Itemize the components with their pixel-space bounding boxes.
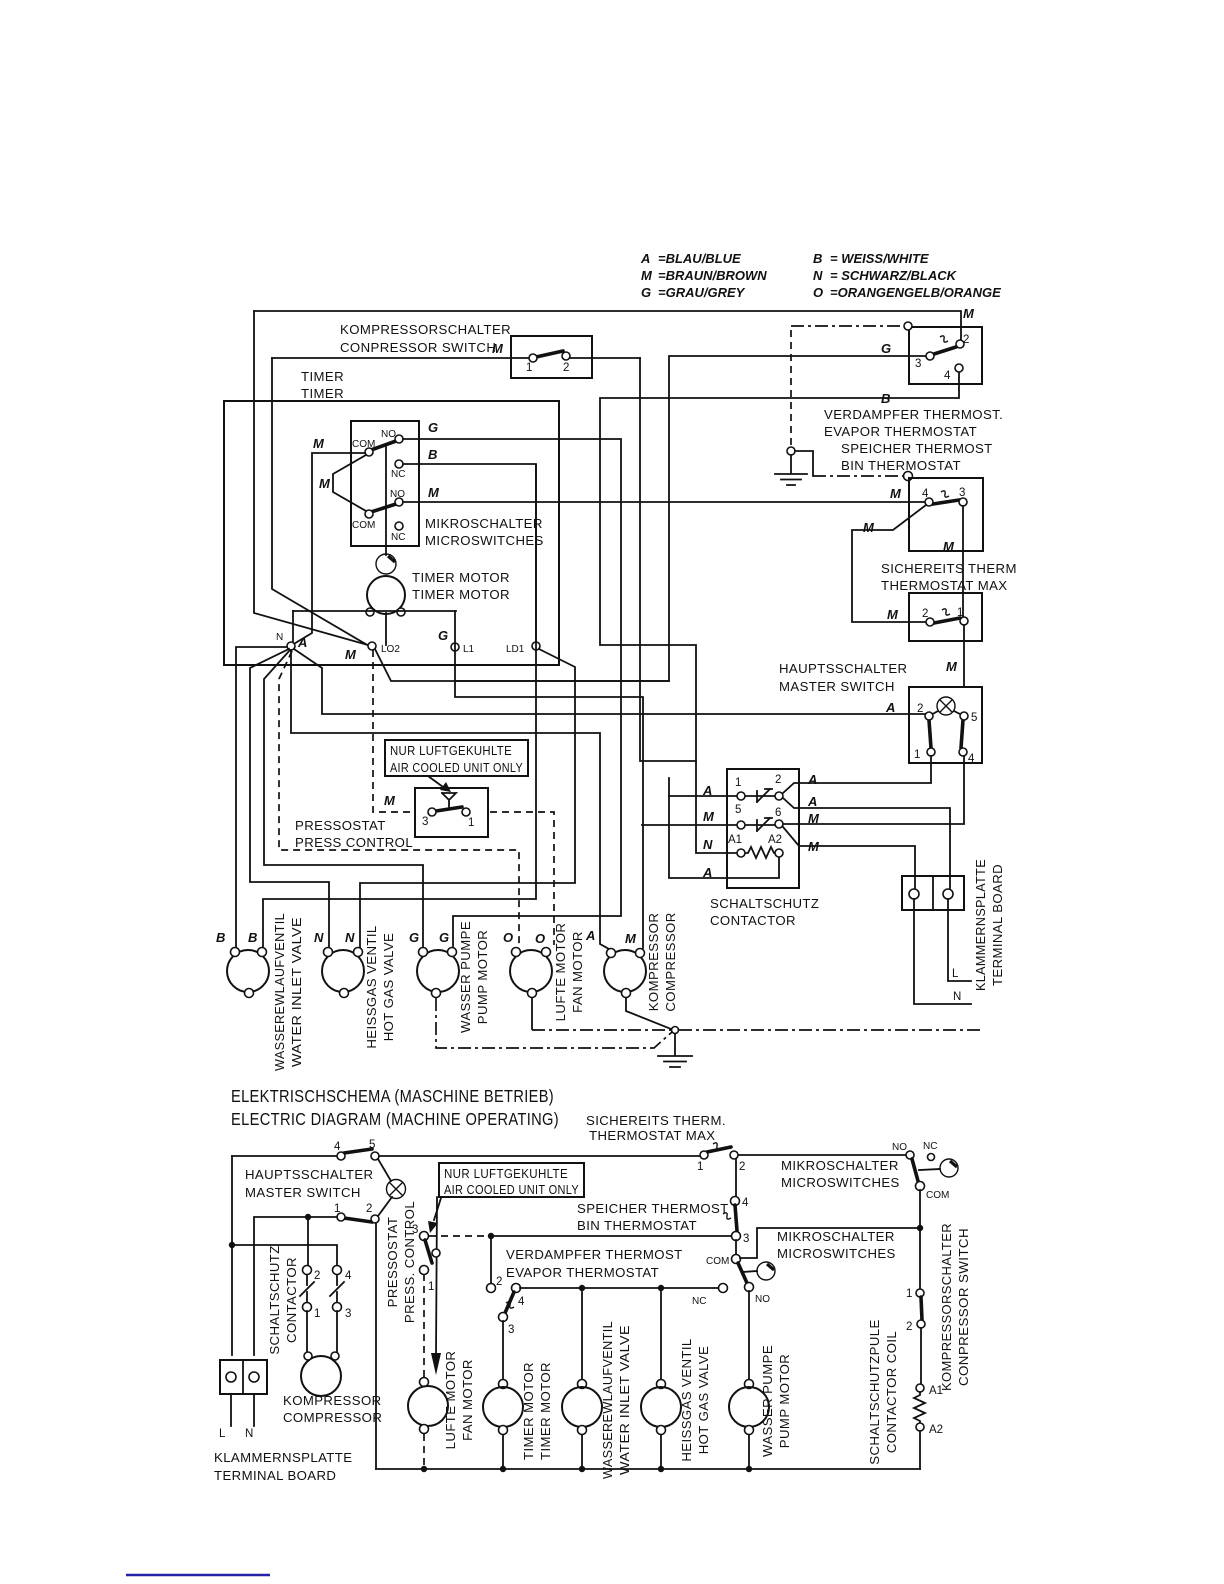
svg-text:COM: COM [352,520,375,531]
bin thermostat box [909,478,983,551]
svg-text:NC: NC [923,1141,937,1152]
svg-text:COMPRESSOR: COMPRESSOR [663,912,678,1011]
wire code letters above motors [216,928,637,946]
wire lamp to 2 [378,1197,392,1216]
svg-text:= SCHWARZ/BLACK: = SCHWARZ/BLACK [830,268,958,283]
hot gas valve motor [322,948,364,998]
timer motor (bottom) [502,1321,504,1469]
wire B from MS1 NC down through LD1 [263,464,536,948]
pressostat blade [436,807,462,811]
svg-text:4: 4 [518,1296,525,1308]
terminal contact 2 [775,792,783,800]
svg-text:SCHALTSCHUTZ: SCHALTSCHUTZ [267,1245,282,1354]
wire node fan to N valve left [250,649,329,948]
terminal LO2 [368,642,376,650]
arrow from note box to pressostat [428,776,443,787]
svg-text:TIMER MOTOR: TIMER MOTOR [412,570,510,585]
contact 5-6 NC symbol [746,818,775,831]
wire left frame vertical to LO2 [254,311,368,645]
board stubs L N [231,1394,254,1426]
page footer link line [126,1574,270,1576]
wire node fan to G pump left [264,650,423,948]
wire N lead [914,899,971,1004]
svg-text:THERMOSTAT MAX: THERMOSTAT MAX [881,578,1008,593]
pressostat B1 box [415,788,488,837]
svg-text:G: G [641,285,651,300]
wire contact 5 feed [642,824,737,826]
svg-text:3: 3 [915,358,921,370]
svg-text:KOMPRESSORSCHALTER: KOMPRESSORSCHALTER [939,1223,954,1391]
pump motor (bottom) [748,1291,750,1469]
evap blade 3-2 [934,347,956,354]
bin thermostat switch (bottom) [731,1197,740,1206]
wire evap B loop [600,372,959,853]
svg-text:EVAPOR THERMOSTAT: EVAPOR THERMOSTAT [824,424,977,439]
evap squiggle [940,336,948,342]
svg-text:KLAMMERNSPLATTE: KLAMMERNSPLATTE [973,859,988,991]
svg-text:WASSEREWLAUFVENTIL: WASSEREWLAUFVENTIL [272,913,287,1071]
svg-text:TERMINAL BOARD: TERMINAL BOARD [214,1468,336,1483]
svg-text:B: B [216,930,225,945]
terminal bin 4 [925,498,933,506]
contact 2-1 (bottom contactor) [303,1266,312,1275]
pressostat switch (bottom) [420,1232,429,1241]
svg-text:6: 6 [775,807,781,819]
terminal master 1 [927,748,935,756]
svg-text:MIKROSCHALTER: MIKROSCHALTER [781,1158,899,1173]
svg-text:2: 2 [563,362,569,374]
svg-text:A: A [807,772,817,787]
svg-text:1: 1 [428,1281,434,1293]
dash-dot earth bus [532,1029,981,1031]
svg-text:G: G [881,341,891,356]
svg-text:VERDAMPFER THERMOST.: VERDAMPFER THERMOST. [824,407,1003,422]
svg-text:M: M [887,607,899,622]
svg-text:1: 1 [334,1203,340,1215]
contactor box (top) [727,769,799,888]
svg-text:TERMINAL BOARD: TERMINAL BOARD [990,864,1005,986]
svg-text:A: A [807,794,817,809]
svg-text:4: 4 [968,753,975,765]
max blade 2-1 [934,618,960,623]
svg-text:PRESS CONTROL: PRESS CONTROL [295,835,413,850]
svg-text:M: M [963,306,975,321]
svg-text:TIMER: TIMER [301,369,344,384]
svg-text:N: N [245,1428,253,1440]
svg-text:THERMOSTAT MAX: THERMOSTAT MAX [589,1128,716,1143]
svg-text:1: 1 [735,777,741,789]
svg-text:O: O [503,930,513,945]
terminal evap 2 [956,340,964,348]
svg-text:4: 4 [742,1197,749,1209]
svg-text:2: 2 [775,774,781,786]
svg-text:2: 2 [917,703,923,715]
svg-text:M: M [313,436,325,451]
svg-text:M: M [703,809,715,824]
terminal master 4 [959,748,967,756]
svg-text:LUFTE MOTOR: LUFTE MOTOR [443,1351,458,1450]
terminal bin 3 [959,498,967,506]
svg-text:2: 2 [314,1270,320,1282]
wire LO2 diagonal branch [375,649,669,681]
svg-text:5: 5 [735,804,741,816]
svg-text:A1: A1 [929,1385,943,1397]
svg-text:LO2: LO2 [381,644,400,655]
svg-text:4: 4 [345,1270,352,1282]
wire bin 3 to thermostat-max 1 [962,506,964,617]
svg-text:SICHEREITS THERM: SICHEREITS THERM [881,561,1017,576]
earth junction [672,1027,679,1034]
svg-text:HOT GAS VALVE: HOT GAS VALVE [696,1346,711,1455]
svg-text:KOMPRESSOR: KOMPRESSOR [646,913,661,1012]
wire fan drain [531,998,533,1029]
svg-text:MIKROSCHALTER: MIKROSCHALTER [777,1229,895,1244]
evap thermostat switch (bottom) [487,1284,496,1293]
svg-text:1: 1 [697,1161,703,1173]
svg-text:TIMER MOTOR: TIMER MOTOR [412,587,510,602]
svg-text:WASSER PUMPE: WASSER PUMPE [760,1345,775,1457]
coil A2 terminal [916,1423,924,1431]
svg-text:N: N [813,268,823,283]
svg-text:M: M [890,486,902,501]
svg-text:M: M [946,659,958,674]
junction on 1-row [305,1214,311,1220]
svg-text:COMPRESSOR: COMPRESSOR [283,1410,382,1425]
terminal L1 [451,643,459,651]
water inlet valve motor [227,948,269,998]
wire M top bus to evaporator thermostat [254,311,961,340]
microswitch MS2 labels [319,476,440,543]
svg-text:SPEICHER THERMOST: SPEICHER THERMOST [577,1201,729,1216]
svg-text:L1: L1 [463,644,475,655]
terminal MS2 COM [365,510,373,518]
svg-text:4: 4 [944,370,951,382]
svg-text:CONTACTOR COIL: CONTACTOR COIL [884,1331,899,1453]
svg-text:MASTER SWITCH: MASTER SWITCH [245,1185,361,1200]
svg-text:NO: NO [755,1294,770,1305]
svg-text:LUFTE MOTOR: LUFTE MOTOR [553,923,568,1022]
water inlet valve (bottom) [581,1292,583,1469]
svg-text:B: B [881,391,890,406]
svg-text:WATER INLET VALVE: WATER INLET VALVE [617,1325,632,1475]
node N/A [287,642,295,650]
wire A2 to terminal board L [783,827,915,888]
svg-text:G: G [409,930,419,945]
terminal MS2 NO [395,498,403,506]
svg-text:NO: NO [381,429,396,440]
svg-text:G: G [428,420,438,435]
bulb circle on evap box [904,322,912,330]
svg-text:ELECTRIC DIAGRAM (MACHINE OPER: ELECTRIC DIAGRAM (MACHINE OPERATING) [231,1109,559,1129]
wire node fan dashed to fan motor left [279,651,519,948]
fan motor [510,948,552,998]
lamp leads [931,711,962,715]
svg-text:=GRAU/GREY: =GRAU/GREY [658,285,746,300]
svg-text:WASSEREWLAUFVENTIL: WASSEREWLAUFVENTIL [600,1321,615,1479]
svg-text:B: B [428,447,437,462]
svg-text:BIN THERMOSTAT: BIN THERMOSTAT [841,458,961,473]
max squiggle [942,609,950,615]
svg-text:VERDAMPFER THERMOST: VERDAMPFER THERMOST [506,1247,683,1262]
wire top line to bin 4 [735,1159,737,1197]
svg-text:M: M [492,341,504,356]
terminal master 2 (bottom) [371,1215,379,1223]
svg-text:1: 1 [914,749,920,761]
dash-dot to bin thermostat bulb [813,475,903,477]
wire master 2 left bus riser [375,1223,377,1469]
dashed capillary down [790,330,792,447]
svg-text:TIMER MOTOR: TIMER MOTOR [521,1362,536,1460]
svg-text:B: B [813,251,822,266]
wire M feed to MS1 COM [292,453,365,645]
svg-text:O: O [535,931,545,946]
master switch 4-5 blade [344,1149,372,1153]
svg-text:G: G [438,628,448,643]
svg-text:NC: NC [692,1296,706,1307]
capillary node circle [787,447,795,455]
terminal max 2 [926,618,934,626]
svg-text:PUMP MOTOR: PUMP MOTOR [475,930,490,1024]
svg-text:N: N [345,930,355,945]
svg-text:G: G [439,930,449,945]
terminal A1 [737,849,745,857]
svg-text:4: 4 [334,1141,341,1153]
svg-text:AIR COOLED UNIT ONLY: AIR COOLED UNIT ONLY [444,1182,579,1197]
master switch box (top) [909,687,982,763]
svg-text:NC: NC [391,469,405,480]
wire LO2 dashed to pressostat 3 [373,650,413,812]
box NUR LUFTGEKUHLTE (top) [385,740,528,776]
svg-text:CONTACTOR: CONTACTOR [710,913,796,928]
svg-text:B: B [248,930,257,945]
terminal evap 4 [955,364,963,372]
terminal board box (top) [902,876,964,910]
terminal max 1 [960,617,968,625]
svg-text:A: A [702,865,712,880]
board terminal right [943,889,953,899]
wire contacts to compressor terminals [307,1311,337,1352]
svg-text:M: M [641,268,653,283]
svg-text:PRESSOSTAT: PRESSOSTAT [295,818,386,833]
top supply line [232,1155,907,1156]
svg-text:HAUPTSSCHALTER: HAUPTSSCHALTER [779,661,907,676]
blade MS2 [371,504,396,512]
timer motor foot left [366,608,374,616]
thermostat max box [909,593,982,641]
dash-dot bulb line to evap box [791,325,904,327]
wire compressor drain [626,998,671,1029]
svg-text:3: 3 [508,1324,514,1336]
pump motor [417,948,459,998]
svg-text:FAN MOTOR: FAN MOTOR [570,931,585,1013]
wire capillary to bin bulb [795,451,813,476]
terminal master 5 (bottom) [371,1152,379,1160]
blade MS1 [371,441,396,450]
svg-text:MICROSWITCHES: MICROSWITCHES [781,1175,900,1190]
svg-text:M: M [319,476,331,491]
bulb circle on bin box [904,472,913,481]
timer outer box [224,401,559,665]
wire pump drain dash-dot [436,998,672,1048]
contact 1-2 NC symbol [746,789,775,802]
cam MS2 (bottom) [742,1271,757,1272]
svg-text:2: 2 [496,1276,502,1288]
board terminal left [909,889,919,899]
svg-text:MASTER SWITCH: MASTER SWITCH [779,679,895,694]
compressor motor (bottom) [301,1356,341,1396]
svg-text:1: 1 [906,1288,912,1300]
terminal master 5 [960,712,968,720]
wire junction down to evap 2 [490,1236,492,1284]
svg-text:FAN MOTOR: FAN MOTOR [460,1359,475,1441]
svg-text:NUR LUFTGEKUHLTE: NUR LUFTGEKUHLTE [390,743,512,758]
coil zigzag [914,1392,925,1423]
wire L1 branch to G evap riser [455,356,926,681]
svg-text:AIR COOLED UNIT ONLY: AIR COOLED UNIT ONLY [390,760,523,775]
node: compressor switch K1 [340,322,592,378]
wire G from MS1 NO across to pump riser [403,439,621,948]
terminal contact 1 [737,792,745,800]
terminal MS1 NO [395,435,403,443]
svg-text:PUMP MOTOR: PUMP MOTOR [777,1354,792,1448]
svg-text:1: 1 [314,1308,320,1320]
svg-text:HOT GAS VALVE: HOT GAS VALVE [381,933,396,1042]
svg-text:L: L [219,1428,226,1440]
timer cam shaft [385,447,387,555]
svg-text:A: A [640,251,650,266]
svg-text:PRESS. CONTROL: PRESS. CONTROL [402,1201,417,1323]
wire A2 to bottom bus [919,1431,921,1469]
svg-text:M: M [345,647,357,662]
wire node A straight-down branch to compressor [291,650,609,949]
wire timer terminal rail [293,610,456,612]
wire master 1 row to terminal board N [254,1217,337,1355]
wire junction to contactor 4 [232,1245,337,1265]
bin blade 4-3 [933,500,959,504]
long arrow to fan motor [436,1197,437,1355]
svg-text:WASSER PUMPE: WASSER PUMPE [458,921,473,1033]
pressostat actuator [442,793,456,808]
svg-text:5: 5 [369,1139,375,1151]
wire 1-row junction down to contact 2 [307,1217,309,1265]
svg-text:NO: NO [892,1142,907,1153]
svg-text:MIKROSCHALTER: MIKROSCHALTER [425,516,543,531]
wire junction to bin thermostat 3 [491,1235,732,1237]
wire node fan to B valve left [236,647,287,948]
microswitch 2 (bottom) [732,1255,741,1264]
wire compressor-switch M riser [640,358,696,761]
hot gas valve (bottom) [660,1292,662,1469]
svg-text:3: 3 [959,487,965,499]
wire contact 1 feed [669,795,737,797]
master blades [929,720,931,748]
MS2 NC terminal [719,1284,728,1293]
svg-text:A: A [585,928,595,943]
wire LD1 riser upper [535,465,537,642]
wire bin 3 down to MS2 COM [735,1240,737,1254]
wire switch 2 down to coil A1 [920,1328,922,1384]
ground symbol (capillary) [775,455,807,485]
svg-text:M: M [943,539,955,554]
terminal pressostat 3 [428,808,436,816]
compressor switch (bottom) [916,1289,924,1297]
svg-text:SCHALTSCHUTZ: SCHALTSCHUTZ [710,896,819,911]
wire contact 2 to terminal board R [783,798,950,888]
svg-text:=BRAUN/BROWN: =BRAUN/BROWN [658,268,767,283]
svg-text:M: M [625,931,637,946]
terminal MS2 NC [395,522,403,530]
terminal pressostat 1 [462,808,470,816]
svg-text:1: 1 [468,817,474,829]
arrow to pressostat (bottom) [434,1198,441,1220]
wire bin 4 zigzag to thermostat-max 2 [852,505,926,622]
microswitch box [351,421,419,546]
svg-text:M: M [863,520,875,535]
bottom neutral bus [376,1468,920,1470]
svg-text:EVAPOR THERMOSTAT: EVAPOR THERMOSTAT [506,1265,659,1280]
svg-text:A: A [297,635,307,650]
svg-text:COM: COM [706,1256,729,1267]
terminal evap 3 [926,352,934,360]
svg-text:COM: COM [926,1190,949,1201]
timer motor foot right [397,608,405,616]
compressor motor (top) [604,949,646,998]
dashed from pressostat 3 to junction [429,1235,487,1237]
switch blade compressor-switch [536,351,563,357]
wire node A to master switch 2 [294,649,925,714]
wire pressostat 1 dashed to fan motor right [490,812,554,945]
svg-text:3: 3 [743,1233,749,1245]
svg-text:NC: NC [391,532,405,543]
svg-text:WATER INLET VALVE: WATER INLET VALVE [289,917,304,1067]
bin squiggle [941,491,949,497]
wire M compressor-switch row [272,357,640,359]
svg-text:PRESSOSTAT: PRESSOSTAT [385,1217,400,1308]
svg-text:1: 1 [526,362,532,374]
wire contact 6 to master 4 [783,756,964,824]
master switch 1-2 blade (bottom) [344,1218,372,1222]
lamp (bottom master) [387,1180,406,1199]
timer cam [376,554,396,574]
svg-text:MICROSWITCHES: MICROSWITCHES [425,533,544,548]
terminal LD1 [532,642,540,650]
wire rail to node A [292,611,294,641]
terminal board box (bottom) [220,1360,267,1394]
wire compressor-switch-1 to LO2 [272,358,369,646]
microswitch 1 (bottom right) [906,1151,914,1159]
svg-text:2: 2 [906,1321,912,1333]
svg-text:KLAMMERNSPLATTE: KLAMMERNSPLATTE [214,1450,352,1465]
wire L lead [948,899,971,981]
svg-text:BIN THERMOSTAT: BIN THERMOSTAT [577,1218,697,1233]
microswitch MS1 labels [313,420,438,480]
svg-text:M: M [384,793,396,808]
terminal compressor-switch 2 [562,352,570,360]
wire evap 4 rail to MS2 NC [520,1287,718,1289]
terminal master 2 [925,712,933,720]
wire max 1 down to master switch [963,625,965,687]
svg-text:2: 2 [366,1203,372,1215]
legend wire colour codes [640,251,1001,300]
wire M from MS2 NO to bin thermostat 4 [403,501,925,503]
svg-text:N: N [276,632,283,643]
wire contact 2 to master 1 [783,756,931,793]
svg-text:A2: A2 [929,1424,943,1436]
ground symbol (main) [658,1034,692,1067]
sichereits therm switch (bottom) [707,1147,731,1152]
svg-text:SICHEREITS THERM.: SICHEREITS THERM. [586,1113,726,1128]
svg-text:HEISSGAS VENTIL: HEISSGAS VENTIL [679,1338,694,1461]
